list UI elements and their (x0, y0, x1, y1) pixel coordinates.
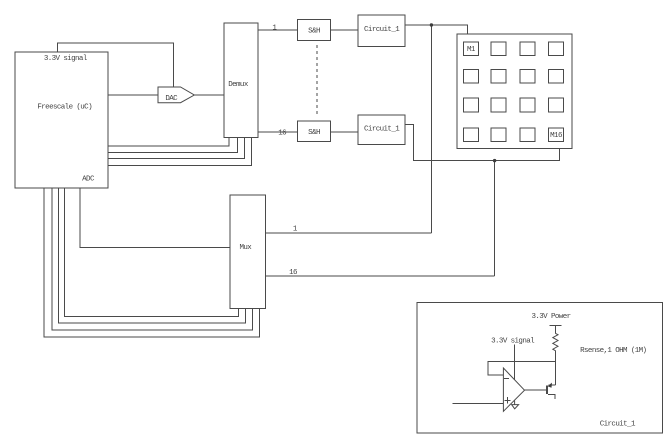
svg-text:Circuit_1: Circuit_1 (600, 421, 636, 429)
svg-text:3.3V signal: 3.3V signal (44, 55, 88, 63)
svg-text:Freescale (uC): Freescale (uC) (37, 104, 92, 112)
svg-text:16: 16 (278, 129, 287, 137)
svg-text:S&H: S&H (308, 28, 320, 36)
svg-text:Circuit_1: Circuit_1 (364, 125, 400, 133)
svg-text:ADC: ADC (82, 175, 95, 183)
svg-text:1: 1 (293, 226, 298, 234)
svg-text:DAC: DAC (165, 95, 178, 103)
svg-text:M16: M16 (550, 132, 563, 140)
svg-text:M1: M1 (467, 46, 476, 54)
svg-text:3.3V Power: 3.3V Power (531, 313, 570, 321)
svg-text:Circuit_1: Circuit_1 (364, 26, 400, 34)
svg-text:3.3V signal: 3.3V signal (491, 337, 535, 345)
svg-text:16: 16 (289, 269, 298, 277)
svg-text:Demux: Demux (228, 81, 249, 89)
svg-text:Mux: Mux (239, 244, 252, 252)
svg-text:1: 1 (272, 25, 277, 33)
svg-text:Rsense,1 OHM (1M): Rsense,1 OHM (1M) (580, 347, 646, 355)
svg-text:S&H: S&H (308, 129, 320, 137)
